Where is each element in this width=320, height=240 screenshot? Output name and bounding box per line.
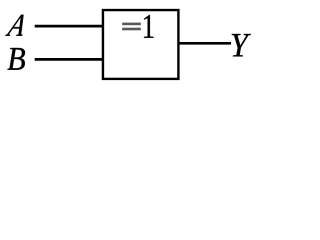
label =1 (XOR function, IEC): [122, 15, 153, 38]
node B label: [8, 48, 25, 70]
wire input B: [35, 58, 104, 61]
node A label: [5, 15, 28, 36]
node Y label: [232, 34, 251, 56]
wire input A: [35, 25, 104, 28]
wire output Y: [177, 42, 231, 45]
XOR gate U1 (IEC rectangle symbol): [103, 10, 178, 79]
